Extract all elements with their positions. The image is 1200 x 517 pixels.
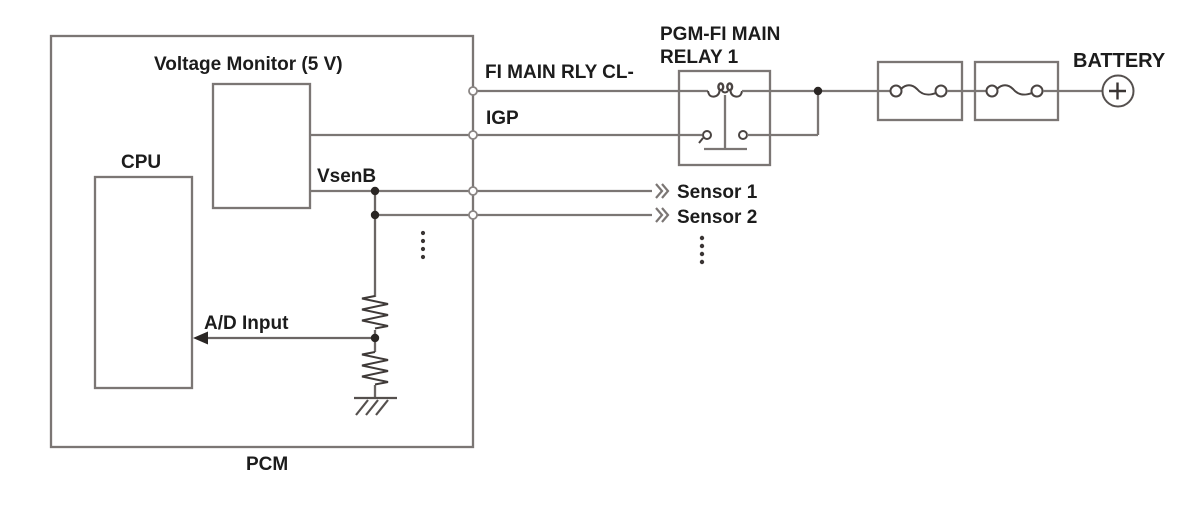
wire A/D Input net — [205, 337, 375, 339]
svg-text:RELAY 1: RELAY 1 — [660, 47, 739, 68]
wire fuse F2 to battery — [1043, 90, 1103, 92]
wire FI MAIN RLY CL- net (PCM pin to relay coil) — [477, 90, 708, 92]
wire IGP net (Voltage Monitor to relay contact) — [310, 134, 702, 136]
resistor R2 pull-down — [362, 352, 388, 385]
fuse F1 element — [891, 85, 947, 96]
node Sensor 2 junction — [371, 211, 379, 219]
svg-text:FI MAIN RLY CL-: FI MAIN RLY CL- — [485, 62, 634, 83]
svg-text:Sensor 1: Sensor 1 — [677, 182, 758, 203]
wire between fuse boxes — [947, 90, 991, 92]
svg-text:CPU: CPU — [121, 152, 161, 173]
wire vertical VsenB divider branch — [374, 191, 376, 297]
wire R2 to ground — [374, 385, 376, 397]
svg-text:Sensor 2: Sensor 2 — [677, 207, 757, 228]
svg-text:PCM: PCM — [246, 454, 288, 475]
relay contact right — [739, 131, 747, 139]
relay K1 box — [679, 71, 770, 165]
fuse F2 element — [987, 85, 1043, 96]
arrowhead into CPU — [193, 332, 208, 345]
PCM enclosure box — [51, 36, 473, 447]
svg-text:VsenB: VsenB — [317, 166, 376, 187]
wire VsenB net (Voltage Monitor to Sensor 1) — [310, 190, 652, 192]
svg-text:IGP: IGP — [486, 108, 519, 129]
node VsenB junction — [371, 187, 379, 195]
wire coil to line continuing right — [742, 90, 891, 92]
node A/D junction — [371, 334, 379, 342]
svg-text:Voltage Monitor (5 V): Voltage Monitor (5 V) — [154, 54, 343, 75]
Voltage Monitor block U1 — [213, 84, 310, 208]
connector pin Sensor 2 — [469, 211, 477, 219]
battery terminal symbol — [1103, 76, 1134, 107]
ground symbol — [354, 398, 397, 415]
wire relay contact to riser — [747, 134, 818, 136]
relay armature line — [724, 95, 726, 149]
relay armature bar — [704, 148, 747, 150]
CPU block U2 — [95, 177, 192, 388]
resistor R1 pull-up — [362, 296, 388, 329]
sensor 1 chevron connector — [656, 184, 668, 198]
fuse F2 box — [975, 62, 1058, 120]
connector pin IGP — [469, 131, 477, 139]
wire riser to battery feed — [817, 91, 819, 135]
relay contact blade — [699, 138, 703, 143]
relay contact left — [703, 131, 711, 139]
relay coil — [708, 83, 742, 96]
fuse F1 box — [878, 62, 962, 120]
svg-text:A/D Input: A/D Input — [204, 313, 289, 334]
wire between R1 and R2 — [374, 330, 376, 352]
node battery feed junction — [814, 87, 822, 95]
ellipsis dots (more sensors, external) — [700, 236, 704, 264]
sensor 2 chevron connector — [656, 208, 668, 222]
wire Sensor 2 branch — [375, 214, 652, 216]
ellipsis dots (more sensors, inside PCM) — [421, 231, 425, 259]
connector pin VsenB — [469, 187, 477, 195]
svg-text:PGM-FI MAIN: PGM-FI MAIN — [660, 24, 780, 45]
svg-text:BATTERY: BATTERY — [1073, 50, 1166, 72]
connector pin FI MAIN RLY CL- — [469, 87, 477, 95]
